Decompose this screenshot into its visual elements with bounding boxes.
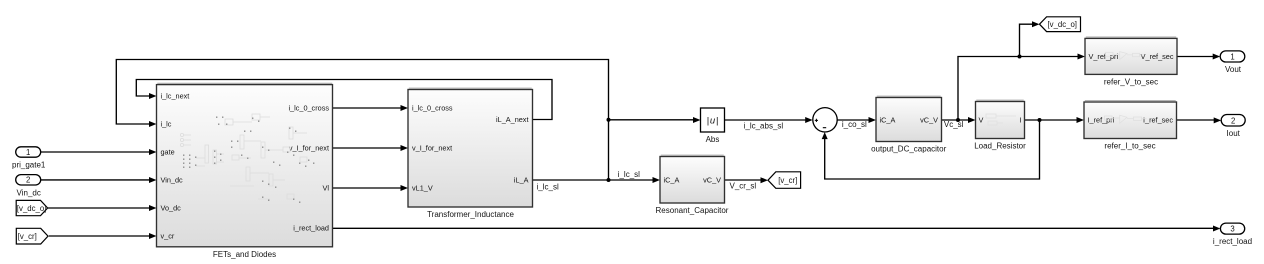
svg-text:output_DC_capacitor: output_DC_capacitor [871,145,946,154]
svg-text:iC_A: iC_A [880,115,896,124]
goto tag [v_dc_o] [1040,17,1081,32]
sum block [813,108,837,132]
wire FETs i_lc_0_cross to Transformer [333,107,402,109]
svg-text:i_lc_0_cross: i_lc_0_cross [288,103,329,112]
svg-text:gate: gate [161,147,175,156]
svg-text:i_lc: i_lc [161,119,172,128]
junction load feedback [1038,118,1042,122]
svg-text:Vin_dc: Vin_dc [17,188,41,197]
svg-text:Abs: Abs [706,135,720,144]
block Abs [701,108,725,144]
wire FETs Vl to Transformer vL1_V [333,187,402,189]
wire Resonant vC_V to goto [v_cr] [725,179,762,181]
goto tag [v_cr] [768,172,801,189]
svg-text:Iout: Iout [1227,129,1241,138]
wire Load_Resistor I to refer_I_to_sec [1025,119,1078,121]
svg-text:3: 3 [1230,225,1234,234]
outport 1 Vout [1220,51,1245,74]
wire Sum to output_DC_capacitor [837,119,869,121]
inport 2 Vin_dc [16,175,41,198]
svg-text:V_ref_sec: V_ref_sec [1141,52,1174,61]
refer_V preview [1106,52,1145,60]
junction Abs branch [607,118,611,122]
svg-text:i_co_sl: i_co_sl [842,120,867,129]
svg-text:vC_V: vC_V [703,175,721,184]
subsystem refer_I_to_sec [1084,101,1177,151]
svg-text:1: 1 [1230,52,1234,61]
svg-text:V: V [979,115,984,124]
svg-text:I_ref_sec: I_ref_sec [1143,116,1173,125]
svg-text:v_I_for_next: v_I_for_next [289,143,329,152]
subsystem FETs_and_Diodes [157,83,333,259]
from tag [v_dc_o] [16,200,47,215]
svg-text:iL_A_next: iL_A_next [496,115,528,124]
svg-text:FETs_and Diodes: FETs_and Diodes [213,250,276,259]
svg-text:V_ref_pri: V_ref_pri [1089,52,1119,61]
svg-text:v_cr: v_cr [161,231,175,240]
svg-text:Vl: Vl [323,183,330,192]
svg-text:Vin_dc: Vin_dc [161,175,184,184]
wire Abs to Sum [725,119,807,121]
svg-text:Transformer_Inductance: Transformer_Inductance [427,210,514,219]
wire output_DC_capacitor vC_V to Load_Resistor [942,119,970,121]
outport 2 Iout [1221,115,1245,139]
svg-text:[v_dc_o]: [v_dc_o] [1048,20,1077,29]
wire feedback branch up to i_lc [116,60,608,181]
junction v_dc_o branch [1018,55,1022,59]
wire up to goto [v_dc_o] [1020,24,1034,56]
subsystem Resonant_Capacitor [656,155,729,215]
svg-text:i_lc_0_cross: i_lc_0_cross [412,103,453,112]
Load_Resistor preview [986,114,1016,125]
svg-text:i_lc_sl: i_lc_sl [537,182,559,191]
svg-text:Vc_sl: Vc_sl [944,120,964,129]
wire Vc_sl up to refer_V_to_sec [958,57,1079,121]
svg-text:vL1_V: vL1_V [412,183,433,192]
svg-text:pri_gate1: pri_gate1 [12,160,46,169]
svg-text:[v_cr]: [v_cr] [778,176,797,185]
FETs preview sketch [180,114,307,199]
wire oval1 to gate [41,151,150,153]
svg-text:2: 2 [26,176,30,185]
wire from [v_dc_o] to Vo_dc [48,207,150,209]
wire feedback iL_A_next to i_lc_next [136,80,552,120]
wire feedback Load to Sum minus [825,120,1040,179]
svg-text:V_cr_sl: V_cr_sl [730,182,757,191]
svg-text:v_I_for_next: v_I_for_next [412,143,452,152]
outport 3 i_rect_load [1213,223,1252,246]
svg-text:1: 1 [26,148,30,157]
wire FETs i_rect_load to outport 3 [333,227,1215,229]
svg-text:refer_I_to_sec: refer_I_to_sec [1104,142,1155,151]
subsystem output_DC_capacitor [871,96,946,153]
svg-text:i_lc_sl: i_lc_sl [618,170,640,179]
svg-text:i_lc_next: i_lc_next [161,91,190,100]
svg-text:Vout: Vout [1225,65,1242,74]
subsystem Transformer_Inductance [408,88,533,219]
svg-text:Load_Resistor: Load_Resistor [974,142,1026,151]
wire from [v_cr] to v_cr [49,235,150,237]
subsystem refer_V_to_sec [1085,37,1177,86]
svg-text:Vo_dc: Vo_dc [161,203,182,212]
svg-text:i_rect_load: i_rect_load [1213,237,1252,246]
inport 1 pri_gate1 [12,147,46,170]
from tag [v_cr] [16,228,48,244]
svg-text:refer_V_to_sec: refer_V_to_sec [1104,78,1158,87]
svg-text:i_rect_load: i_rect_load [293,223,329,232]
svg-text:vC_V: vC_V [920,115,938,124]
junction iL_A branch [607,178,611,182]
svg-text:i_lc_abs_sl: i_lc_abs_sl [744,121,784,130]
wire oval2 to Vin_dc [41,179,150,181]
wire FETs v_I_for_next to Transformer [333,147,402,149]
svg-text:2: 2 [1231,116,1235,125]
svg-text:iC_A: iC_A [664,175,680,184]
svg-text:iL_A: iL_A [514,175,529,184]
FETs preview dots [183,117,314,203]
junction Vc_sl [956,118,960,122]
wire branch to Abs [609,119,695,121]
svg-text:Resonant_Capacitor: Resonant_Capacitor [656,206,729,215]
svg-text:[v_dc_o]: [v_dc_o] [17,204,46,213]
svg-text:I: I [1019,115,1021,124]
wire refer_V_to_sec to Vout [1177,56,1214,58]
wire iL_A to Resonant_Capacitor [533,179,654,181]
svg-text:[v_cr]: [v_cr] [18,232,37,241]
svg-text:|u|: |u| [707,115,719,126]
refer_I preview [1105,115,1147,123]
wire refer_I_to_sec to Iout [1177,119,1216,121]
subsystem Load_Resistor [974,100,1026,150]
